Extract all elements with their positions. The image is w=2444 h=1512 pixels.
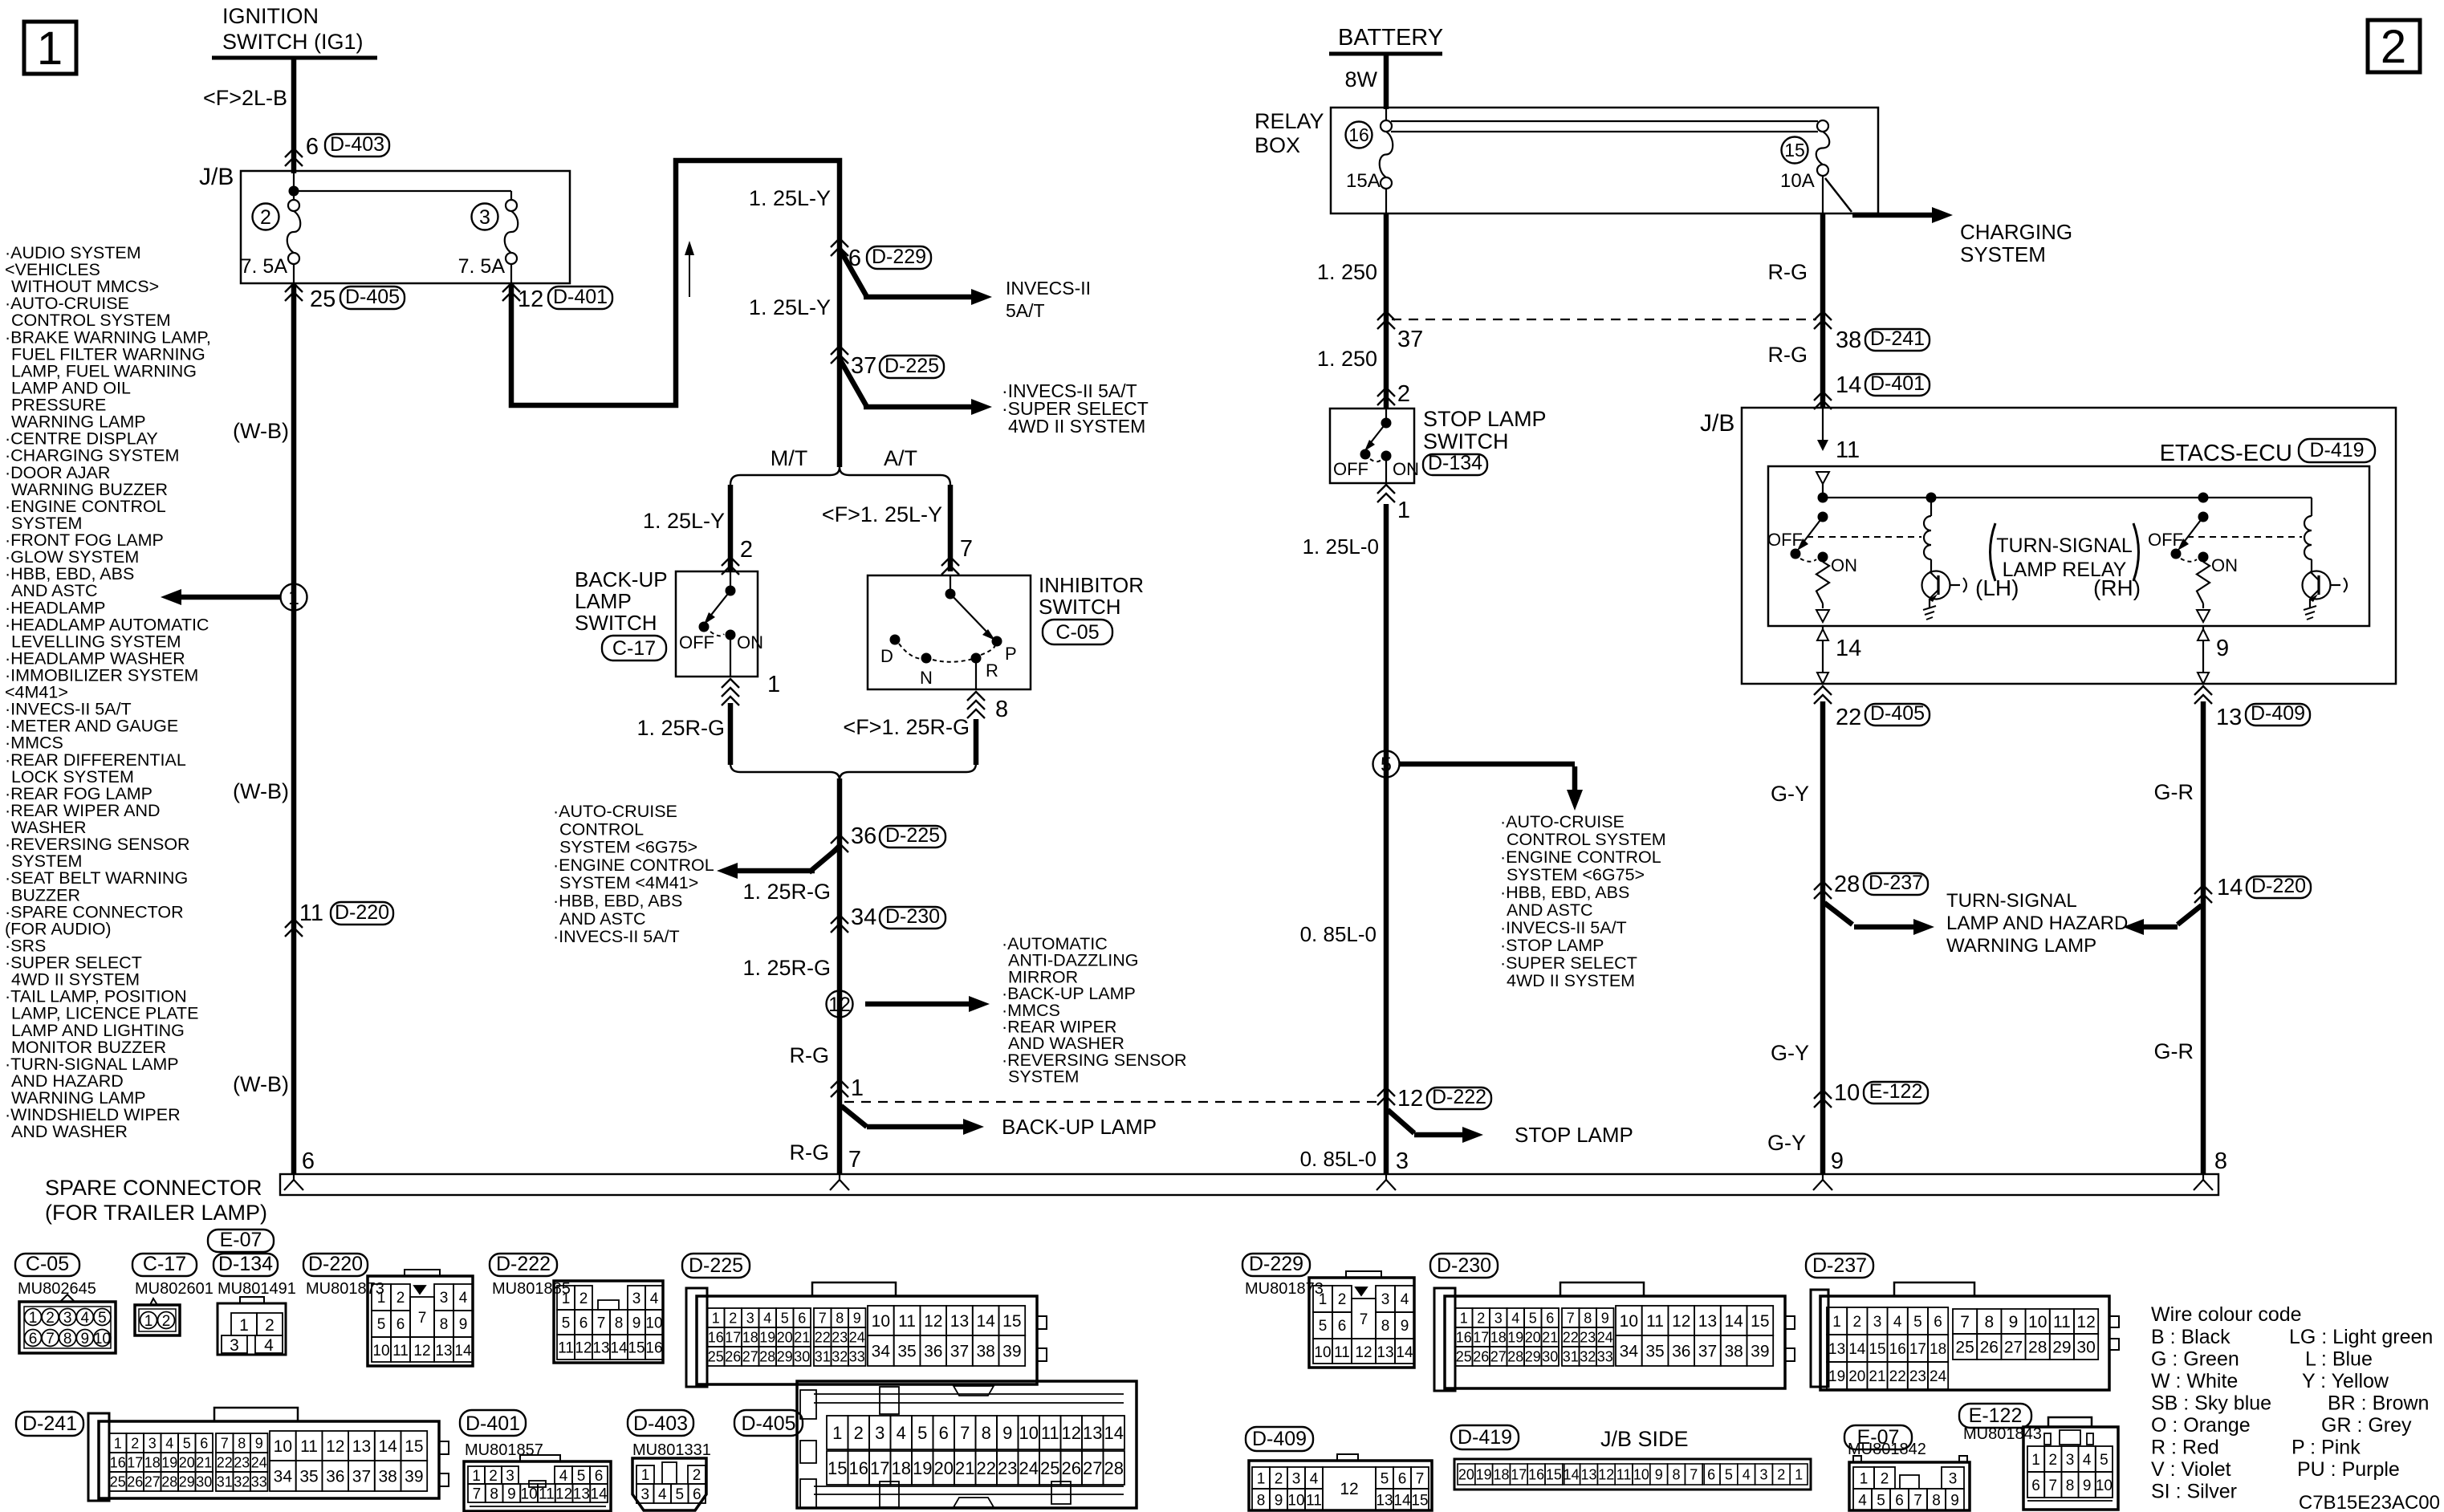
svg-text:18: 18 bbox=[1930, 1341, 1946, 1358]
svg-text:G-Y: G-Y bbox=[1767, 1131, 1806, 1155]
wire label G-R lower bbox=[2154, 1039, 2194, 1063]
svg-text:3: 3 bbox=[1873, 1314, 1882, 1331]
svg-text:33: 33 bbox=[1597, 1348, 1613, 1364]
svg-text:24: 24 bbox=[1597, 1329, 1613, 1345]
svg-text:3: 3 bbox=[640, 1486, 649, 1503]
svg-text:8: 8 bbox=[2214, 1148, 2227, 1174]
svg-text:1. 250: 1. 250 bbox=[1317, 260, 1377, 284]
branch target text turn-signal hazard bbox=[1946, 890, 2128, 957]
svg-text:9: 9 bbox=[507, 1486, 516, 1502]
branch target text INVECS-II 5A/T bbox=[1006, 278, 1091, 321]
wire inside J/B to fuse 3 bbox=[294, 191, 511, 200]
svg-text:36: 36 bbox=[1672, 1343, 1690, 1361]
svg-text:C-05: C-05 bbox=[26, 1253, 69, 1275]
svg-text:·AUTO-CRUISE: ·AUTO-CRUISE bbox=[1500, 812, 1625, 831]
wire label 1.25R-G M/T lower bbox=[636, 716, 725, 740]
svg-text:34: 34 bbox=[872, 1343, 891, 1361]
svg-text:29: 29 bbox=[2052, 1339, 2071, 1357]
svg-text:BR : Brown: BR : Brown bbox=[2328, 1392, 2429, 1415]
svg-text:20: 20 bbox=[1458, 1466, 1474, 1482]
svg-text:10: 10 bbox=[94, 1331, 111, 1347]
svg-text:5: 5 bbox=[562, 1315, 571, 1331]
value label <F>2L-B bbox=[203, 86, 287, 110]
svg-text:7: 7 bbox=[46, 1331, 55, 1347]
svg-text:3: 3 bbox=[63, 1310, 72, 1327]
stop lamp switch box bbox=[1330, 408, 1414, 483]
connector D-225 pin view bbox=[686, 1282, 1047, 1387]
svg-text:R : Red: R : Red bbox=[2151, 1437, 2219, 1459]
svg-text:D-229: D-229 bbox=[1249, 1253, 1303, 1275]
pin 12 connector D-222 bbox=[1397, 1086, 1491, 1112]
fuse 3 rating 7.5A bbox=[458, 255, 506, 278]
svg-text:19: 19 bbox=[1828, 1368, 1845, 1385]
RH sense resistor bbox=[2197, 562, 2210, 608]
RH switch dashed line to coil bbox=[2187, 536, 2302, 538]
svg-text:OFF: OFF bbox=[2148, 530, 2183, 550]
svg-text:30: 30 bbox=[196, 1473, 212, 1490]
svg-text:6: 6 bbox=[1546, 1310, 1554, 1326]
wire label 0.85L-0 upper bbox=[1300, 922, 1377, 946]
svg-text:22: 22 bbox=[1889, 1368, 1906, 1385]
svg-text:10: 10 bbox=[872, 1312, 890, 1331]
svg-text:OFF: OFF bbox=[1767, 530, 1803, 550]
svg-text:2: 2 bbox=[265, 1316, 274, 1335]
svg-text:3: 3 bbox=[1759, 1466, 1767, 1482]
node 12 branch arrow bbox=[827, 991, 990, 1018]
svg-text:13: 13 bbox=[1828, 1341, 1845, 1358]
svg-text:<F>2L-B: <F>2L-B bbox=[203, 86, 287, 110]
svg-text:SPARE CONNECTOR: SPARE CONNECTOR bbox=[45, 1176, 262, 1200]
svg-text:30: 30 bbox=[794, 1348, 810, 1364]
chevrons at stop switch pin 1 bbox=[1377, 485, 1395, 502]
svg-text:R-G: R-G bbox=[1768, 343, 1808, 367]
svg-text:14: 14 bbox=[610, 1339, 628, 1356]
connector D-134 pin view bbox=[218, 1297, 286, 1355]
svg-text:27: 27 bbox=[2004, 1339, 2023, 1357]
svg-text:D: D bbox=[880, 646, 893, 666]
back-up switch common contact bbox=[726, 571, 736, 596]
svg-text:10: 10 bbox=[521, 1486, 538, 1502]
svg-text:7: 7 bbox=[597, 1315, 606, 1331]
svg-text:19: 19 bbox=[759, 1329, 775, 1345]
connector D-220 pin view bbox=[368, 1270, 473, 1366]
svg-text:8: 8 bbox=[836, 1310, 844, 1326]
svg-text:24: 24 bbox=[251, 1454, 267, 1470]
connector E-122 part number MU801843 bbox=[1963, 1425, 2042, 1443]
svg-text:OFF: OFF bbox=[1333, 459, 1368, 479]
stop switch arm bbox=[1360, 423, 1387, 460]
svg-text:5: 5 bbox=[1913, 1314, 1922, 1331]
svg-text:6: 6 bbox=[200, 1435, 208, 1451]
svg-text:D-222: D-222 bbox=[1432, 1086, 1486, 1108]
svg-text:N: N bbox=[920, 668, 933, 688]
svg-text:13: 13 bbox=[950, 1312, 969, 1331]
wire label 8W bbox=[1345, 67, 1378, 91]
label (LH) bbox=[1975, 575, 2019, 600]
svg-text:31: 31 bbox=[815, 1348, 831, 1364]
svg-text:E-122: E-122 bbox=[1969, 1404, 2023, 1427]
fuse 16 symbol bbox=[1380, 120, 1393, 189]
svg-text:W : White: W : White bbox=[2151, 1370, 2238, 1392]
svg-text:31: 31 bbox=[217, 1473, 233, 1490]
svg-text:10: 10 bbox=[1834, 1080, 1860, 1106]
svg-text:25: 25 bbox=[310, 287, 335, 312]
svg-text:1. 25L-Y: 1. 25L-Y bbox=[643, 509, 725, 533]
svg-text:21: 21 bbox=[196, 1454, 212, 1470]
svg-text:7: 7 bbox=[960, 1423, 970, 1443]
svg-text:12: 12 bbox=[2076, 1313, 2095, 1331]
connector D-419 pin view bbox=[1454, 1459, 1811, 1490]
inhibitor switch box bbox=[868, 575, 1031, 689]
svg-text:7. 5A: 7. 5A bbox=[458, 255, 506, 278]
connector D-241 label bbox=[16, 1412, 83, 1436]
svg-text:·HBB, EBD, ABS: ·HBB, EBD, ABS bbox=[553, 892, 682, 911]
svg-text:7: 7 bbox=[819, 1310, 827, 1326]
svg-text:9: 9 bbox=[1655, 1466, 1663, 1482]
zone marker 2 bbox=[2368, 20, 2420, 73]
svg-text:28: 28 bbox=[161, 1473, 177, 1490]
svg-text:36: 36 bbox=[326, 1468, 344, 1486]
svg-text:3: 3 bbox=[1949, 1470, 1958, 1487]
power source IGNITION SWITCH (IG1) bbox=[212, 4, 377, 58]
svg-text:10: 10 bbox=[1019, 1423, 1039, 1443]
pin 9 at spare connector bus bbox=[1831, 1148, 1844, 1174]
svg-text:15: 15 bbox=[405, 1437, 423, 1456]
svg-text:12: 12 bbox=[1062, 1423, 1081, 1443]
svg-text:E-122: E-122 bbox=[1869, 1080, 1923, 1103]
wire label R-G (bottom) bbox=[790, 1140, 830, 1164]
svg-text:SWITCH: SWITCH bbox=[575, 611, 657, 635]
svg-text:2: 2 bbox=[131, 1435, 139, 1451]
svg-text:30: 30 bbox=[2076, 1339, 2095, 1357]
svg-text:4: 4 bbox=[1893, 1314, 1902, 1331]
svg-text:9: 9 bbox=[632, 1315, 641, 1331]
stop switch dashed arc bbox=[1370, 451, 1392, 462]
svg-text:BACK-UP LAMP: BACK-UP LAMP bbox=[1002, 1115, 1157, 1139]
svg-text:9: 9 bbox=[1002, 1423, 1012, 1443]
svg-text:10: 10 bbox=[372, 1343, 389, 1360]
svg-text:9: 9 bbox=[81, 1331, 90, 1347]
svg-text:4: 4 bbox=[1401, 1291, 1409, 1308]
svg-text:32: 32 bbox=[832, 1348, 848, 1364]
svg-text:6: 6 bbox=[302, 1148, 315, 1174]
wire 1.25L-O below fuse 16 bbox=[1385, 189, 1387, 408]
svg-text:14: 14 bbox=[1724, 1312, 1743, 1331]
svg-text:26: 26 bbox=[127, 1473, 143, 1490]
svg-text:16: 16 bbox=[110, 1454, 126, 1470]
svg-text:1: 1 bbox=[832, 1423, 842, 1443]
TURN-SIGNAL LAMP RELAY label bbox=[1991, 523, 2139, 581]
svg-text:11: 11 bbox=[1646, 1312, 1664, 1331]
svg-text:2: 2 bbox=[1397, 381, 1410, 407]
svg-text:9: 9 bbox=[459, 1316, 468, 1333]
svg-text:34: 34 bbox=[851, 904, 876, 930]
pin 37 connector D-225 bbox=[851, 353, 944, 379]
wire W-B main left bbox=[293, 264, 295, 1174]
svg-text:ETACS-ECU: ETACS-ECU bbox=[2160, 441, 2292, 466]
relay box bus wires bbox=[1391, 121, 1818, 132]
svg-text:13: 13 bbox=[352, 1437, 371, 1456]
spare connector label bbox=[45, 1176, 267, 1225]
svg-text:D-134: D-134 bbox=[218, 1253, 273, 1275]
LH switch OFF label bbox=[1767, 530, 1803, 550]
svg-text:D-220: D-220 bbox=[335, 901, 389, 924]
wire M/T leg upper bbox=[728, 485, 734, 571]
svg-text:2: 2 bbox=[1881, 1470, 1889, 1487]
svg-text:8: 8 bbox=[490, 1486, 498, 1502]
svg-text:·INVECS-II 5A/T: ·INVECS-II 5A/T bbox=[553, 927, 680, 946]
label A/T bbox=[884, 446, 917, 470]
svg-text:4: 4 bbox=[81, 1310, 90, 1327]
svg-text:4WD II SYSTEM: 4WD II SYSTEM bbox=[1507, 971, 1635, 990]
svg-text:3: 3 bbox=[440, 1290, 449, 1307]
connector D-134 designator bbox=[1423, 452, 1487, 475]
branch target text invecs/super select bbox=[1002, 380, 1149, 437]
svg-text:12: 12 bbox=[1355, 1344, 1372, 1361]
svg-text:1. 25R-G: 1. 25R-G bbox=[742, 880, 831, 904]
svg-text:O : Orange: O : Orange bbox=[2151, 1414, 2251, 1437]
svg-text:Y : Yellow: Y : Yellow bbox=[2302, 1370, 2389, 1392]
chevrons at stop lamp switch pin 2 bbox=[1377, 388, 1395, 405]
branch wire to back-up lamp bbox=[841, 1106, 984, 1135]
pin 1 back-up lamp switch bbox=[767, 672, 780, 697]
svg-text:14: 14 bbox=[976, 1312, 995, 1331]
wire label 1.25L-Y lower bbox=[749, 295, 831, 319]
svg-text:6: 6 bbox=[595, 1468, 604, 1485]
svg-text:1. 25L-Y: 1. 25L-Y bbox=[749, 295, 831, 319]
chevrons at inhibitor switch pin 7 bbox=[941, 557, 959, 575]
svg-text:·SUPER SELECT: ·SUPER SELECT bbox=[1500, 953, 1637, 973]
svg-text:6: 6 bbox=[939, 1423, 949, 1443]
svg-text:1: 1 bbox=[239, 1316, 249, 1335]
svg-text:3: 3 bbox=[2066, 1452, 2075, 1469]
svg-text:29: 29 bbox=[1525, 1348, 1541, 1364]
svg-text:SWITCH: SWITCH bbox=[1039, 595, 1121, 619]
chevrons at back-up lamp switch pin 2 bbox=[722, 557, 739, 575]
svg-text:SYSTEM: SYSTEM bbox=[1960, 242, 2046, 266]
svg-text:12: 12 bbox=[518, 287, 543, 312]
svg-text:22: 22 bbox=[1563, 1329, 1579, 1345]
connector D-237 label bbox=[1806, 1254, 1873, 1278]
svg-text:4: 4 bbox=[2083, 1452, 2092, 1469]
svg-text:4: 4 bbox=[264, 1336, 274, 1355]
svg-text:D-419: D-419 bbox=[1458, 1426, 1512, 1449]
svg-text:15: 15 bbox=[1546, 1466, 1562, 1482]
connector D-403 pin view bbox=[632, 1458, 706, 1510]
branch wire to engine control systems bbox=[717, 847, 840, 879]
svg-text:CONTROL: CONTROL bbox=[559, 819, 644, 839]
wire label 1.250 upper bbox=[1317, 260, 1377, 284]
svg-text:16: 16 bbox=[849, 1458, 868, 1478]
svg-text:2: 2 bbox=[46, 1310, 55, 1327]
svg-text:8: 8 bbox=[1984, 1313, 1994, 1331]
wire label <F>1.25L-Y A/T leg bbox=[822, 502, 942, 526]
label M/T bbox=[771, 446, 808, 470]
RH flasher switch bbox=[2171, 512, 2209, 559]
connector D-222 part number MU801885 bbox=[492, 1280, 571, 1298]
inhibitor contact D bbox=[880, 635, 901, 667]
wire label R-G mid right bbox=[1768, 343, 1808, 367]
connector E-07 pin view bbox=[1849, 1456, 1970, 1510]
svg-text:9: 9 bbox=[1275, 1492, 1283, 1509]
svg-text:25: 25 bbox=[708, 1348, 724, 1364]
svg-text:15: 15 bbox=[1751, 1312, 1769, 1331]
svg-text:D-405: D-405 bbox=[1870, 702, 1925, 725]
svg-text:0. 85L-0: 0. 85L-0 bbox=[1300, 922, 1377, 946]
svg-text:16: 16 bbox=[1889, 1341, 1906, 1358]
LH flasher switch bbox=[1791, 512, 1828, 559]
svg-text:27: 27 bbox=[144, 1473, 161, 1490]
svg-text:39: 39 bbox=[1751, 1343, 1769, 1361]
svg-text:AND ASTC: AND ASTC bbox=[1507, 900, 1593, 920]
svg-text:10: 10 bbox=[1620, 1312, 1638, 1331]
svg-text:9: 9 bbox=[1950, 1492, 1959, 1509]
svg-text:3: 3 bbox=[1494, 1310, 1503, 1326]
wire G-Y left leg bbox=[1820, 701, 1826, 1174]
svg-text:1. 25L-0: 1. 25L-0 bbox=[1303, 534, 1379, 559]
svg-text:D-237: D-237 bbox=[1812, 1254, 1867, 1277]
svg-text:11: 11 bbox=[898, 1312, 916, 1331]
svg-text:10: 10 bbox=[274, 1437, 292, 1456]
pin 7 inhibitor switch bbox=[960, 536, 973, 562]
svg-text:4WD II SYSTEM: 4WD II SYSTEM bbox=[1008, 416, 1145, 437]
pin 8 at spare connector bus bbox=[2214, 1148, 2227, 1174]
connector D-405 pin view bbox=[797, 1381, 1137, 1508]
bus drop mark pin 8 bbox=[2194, 1174, 2213, 1190]
svg-text:32: 32 bbox=[1580, 1348, 1596, 1364]
svg-text:17: 17 bbox=[1511, 1466, 1527, 1482]
svg-text:1: 1 bbox=[2031, 1452, 2040, 1469]
svg-text:12: 12 bbox=[326, 1437, 344, 1456]
wire label 1.25R-G (above D-230) bbox=[742, 880, 831, 904]
connector E-122 label bbox=[1959, 1404, 2031, 1428]
svg-text:3: 3 bbox=[875, 1423, 884, 1443]
svg-text:·ENGINE CONTROL: ·ENGINE CONTROL bbox=[553, 856, 714, 875]
svg-text:15A: 15A bbox=[1346, 170, 1381, 192]
inhibitor switch arm to P bbox=[950, 594, 995, 640]
svg-text:6: 6 bbox=[1338, 1318, 1347, 1335]
svg-text:8: 8 bbox=[63, 1331, 72, 1347]
pin 3 at spare connector bus bbox=[1396, 1148, 1409, 1174]
ETACS ECU box bbox=[1768, 466, 2369, 626]
svg-text:16: 16 bbox=[708, 1329, 724, 1345]
svg-text:17: 17 bbox=[127, 1454, 143, 1470]
connector C-17 designator bbox=[602, 636, 666, 660]
svg-text:3: 3 bbox=[506, 1468, 514, 1485]
wire label 1.25L-0 bbox=[1303, 534, 1379, 559]
svg-text:7: 7 bbox=[2049, 1477, 2058, 1494]
svg-text:11: 11 bbox=[1041, 1423, 1059, 1443]
svg-text:M/T: M/T bbox=[771, 446, 808, 470]
svg-text:D-225: D-225 bbox=[884, 355, 939, 377]
pin 14 label below ECU bbox=[1836, 636, 1861, 661]
svg-text:2: 2 bbox=[396, 1290, 405, 1307]
RH switch dashed arc bbox=[2181, 552, 2209, 563]
svg-text:G-R: G-R bbox=[2154, 780, 2194, 804]
svg-text:29: 29 bbox=[777, 1348, 793, 1364]
svg-text:2: 2 bbox=[579, 1290, 588, 1307]
chevrons at D-230 pin 34 bbox=[831, 915, 848, 933]
connector E-122 pin view bbox=[2023, 1417, 2118, 1510]
svg-text:D-241: D-241 bbox=[1870, 327, 1925, 350]
svg-text:D-401: D-401 bbox=[553, 286, 608, 308]
svg-text:GR : Grey: GR : Grey bbox=[2321, 1414, 2412, 1437]
pin 2 stop lamp switch bbox=[1397, 381, 1410, 407]
svg-text:C-17: C-17 bbox=[143, 1253, 186, 1275]
svg-text:·STOP LAMP: ·STOP LAMP bbox=[1500, 936, 1604, 955]
svg-text:9: 9 bbox=[2083, 1477, 2092, 1494]
svg-text:9: 9 bbox=[1601, 1310, 1609, 1326]
pin 11 label bbox=[1836, 437, 1860, 463]
wire label R-G (above pin 1) bbox=[790, 1043, 830, 1067]
svg-text:17: 17 bbox=[1909, 1341, 1926, 1358]
chevrons below J/B left leg bbox=[1814, 686, 1832, 704]
svg-text:MU801491: MU801491 bbox=[218, 1280, 296, 1298]
svg-text:13: 13 bbox=[1377, 1344, 1393, 1361]
svg-text:37: 37 bbox=[950, 1343, 969, 1361]
svg-text:ON: ON bbox=[1831, 555, 1857, 575]
svg-text:8: 8 bbox=[995, 697, 1008, 722]
chevrons at D-241 pin 38 bbox=[1814, 311, 1832, 329]
svg-text:30: 30 bbox=[1542, 1348, 1558, 1364]
back-up switch output wire bbox=[730, 635, 731, 677]
zone marker 1 bbox=[24, 22, 76, 75]
svg-text:7: 7 bbox=[848, 1147, 861, 1173]
svg-text:25: 25 bbox=[1955, 1339, 1974, 1357]
svg-text:STOP LAMP: STOP LAMP bbox=[1423, 407, 1547, 431]
stop switch ON label bbox=[1393, 459, 1419, 479]
LH output open arrow bbox=[1816, 610, 1829, 622]
svg-text:3: 3 bbox=[479, 206, 490, 229]
svg-text:13: 13 bbox=[1376, 1492, 1393, 1509]
svg-text:·AUTO-CRUISE: ·AUTO-CRUISE bbox=[553, 802, 677, 821]
wire into ECU pin 11 bbox=[1817, 408, 1828, 451]
svg-text:R-G: R-G bbox=[790, 1043, 830, 1067]
inhibitor switch common contact bbox=[945, 575, 956, 600]
svg-text:D-230: D-230 bbox=[1437, 1254, 1491, 1277]
svg-text:9: 9 bbox=[853, 1310, 861, 1326]
svg-text:2: 2 bbox=[693, 1467, 701, 1484]
svg-text:SB : Sky blue: SB : Sky blue bbox=[2151, 1392, 2271, 1415]
svg-text:A/T: A/T bbox=[884, 446, 917, 470]
svg-text:1: 1 bbox=[37, 22, 63, 75]
svg-text:34: 34 bbox=[274, 1468, 293, 1486]
pin 1 stop lamp switch bbox=[1397, 498, 1410, 523]
svg-text:10: 10 bbox=[2096, 1477, 2113, 1494]
svg-text:2: 2 bbox=[162, 1313, 171, 1330]
RH switch ON label bbox=[2211, 555, 2238, 575]
chevrons at right J/B entry bbox=[1814, 392, 1832, 409]
label (RH) bbox=[2093, 575, 2141, 600]
svg-text:5: 5 bbox=[675, 1486, 684, 1503]
svg-text:15: 15 bbox=[1002, 1312, 1021, 1331]
svg-text:15: 15 bbox=[1411, 1492, 1428, 1509]
connector D-230 label bbox=[1430, 1254, 1498, 1278]
svg-text:LAMP AND HAZARD: LAMP AND HAZARD bbox=[1946, 912, 2128, 934]
fuse 2 symbol bbox=[287, 200, 301, 264]
svg-text:14: 14 bbox=[1848, 1341, 1866, 1358]
svg-text:13: 13 bbox=[592, 1339, 609, 1356]
connector D-405 label bbox=[734, 1410, 803, 1436]
bus drop mark pin 9 bbox=[1813, 1174, 1832, 1190]
pin 6 at spare connector bus bbox=[302, 1148, 315, 1174]
svg-text:13: 13 bbox=[573, 1486, 590, 1502]
svg-text:SYSTEM: SYSTEM bbox=[1008, 1067, 1079, 1087]
svg-text:5A/T: 5A/T bbox=[1006, 300, 1045, 321]
connector D-241 pin view bbox=[88, 1408, 449, 1501]
pin 6 connector D-403 bbox=[306, 133, 389, 160]
chevrons at inhibitor pin 8 bbox=[967, 692, 985, 718]
